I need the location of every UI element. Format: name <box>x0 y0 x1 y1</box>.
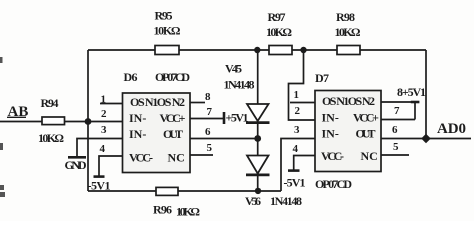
svg-text:D7: D7 <box>315 71 329 85</box>
svg-text:OUT: OUT <box>356 127 376 141</box>
svg-text:10KΩ: 10KΩ <box>335 25 361 39</box>
svg-text:AB: AB <box>8 104 29 120</box>
svg-text:5: 5 <box>207 142 213 154</box>
svg-text:IN-: IN- <box>322 127 339 141</box>
svg-text:-5V1: -5V1 <box>284 176 306 190</box>
svg-text:IN-: IN- <box>129 127 146 141</box>
svg-text:NC: NC <box>168 151 185 165</box>
svg-text:10KΩ: 10KΩ <box>154 24 181 38</box>
svg-text:OS N1OS N2: OS N1OS N2 <box>322 94 375 108</box>
svg-text:OP07CD: OP07CD <box>155 70 190 84</box>
svg-text:6: 6 <box>205 126 211 138</box>
svg-text:VCC+: VCC+ <box>353 111 379 125</box>
svg-text:5: 5 <box>393 141 399 153</box>
svg-text:3: 3 <box>101 124 107 136</box>
svg-text:R97: R97 <box>268 10 286 24</box>
svg-text:2: 2 <box>101 108 107 120</box>
svg-text:10KΩ: 10KΩ <box>38 131 64 145</box>
svg-text:10KΩ: 10KΩ <box>176 205 200 219</box>
svg-text:GND: GND <box>65 158 87 172</box>
svg-text:IN-: IN- <box>322 111 339 125</box>
svg-text:7: 7 <box>394 105 400 117</box>
svg-text:OUT: OUT <box>163 127 183 141</box>
svg-text:VCC+: VCC+ <box>160 111 186 125</box>
svg-text:-5V1: -5V1 <box>88 179 111 193</box>
svg-text:2: 2 <box>295 105 301 117</box>
svg-text:R98: R98 <box>336 10 355 24</box>
svg-text:8+5V1: 8+5V1 <box>397 85 426 99</box>
svg-text:10KΩ: 10KΩ <box>266 25 292 39</box>
svg-text:VCC-: VCC- <box>129 151 153 165</box>
svg-text:VCC-: VCC- <box>321 149 344 163</box>
svg-text:NC: NC <box>361 149 378 163</box>
svg-text:OP07CD: OP07CD <box>315 177 352 191</box>
svg-text:R96: R96 <box>153 203 172 217</box>
svg-text:AD0: AD0 <box>437 121 466 137</box>
svg-text:1: 1 <box>101 94 107 106</box>
svg-text:V56: V56 <box>245 194 261 208</box>
svg-text:6: 6 <box>392 124 398 136</box>
svg-text:OS N1OS N2: OS N1OS N2 <box>130 95 185 109</box>
svg-text:1: 1 <box>294 89 300 101</box>
svg-text:+5V1: +5V1 <box>226 111 249 125</box>
svg-text:4: 4 <box>100 143 106 155</box>
svg-text:D6: D6 <box>124 70 138 84</box>
svg-text:7: 7 <box>207 106 213 118</box>
svg-text:4: 4 <box>293 143 299 155</box>
svg-text:V45: V45 <box>225 62 242 76</box>
svg-text:IN-: IN- <box>129 111 146 125</box>
svg-text:8: 8 <box>205 91 211 103</box>
svg-text:1N4148: 1N4148 <box>224 78 255 92</box>
svg-text:3: 3 <box>294 124 300 136</box>
svg-text:R94: R94 <box>41 96 59 110</box>
svg-text:1N4148: 1N4148 <box>270 194 302 208</box>
svg-text:R95: R95 <box>155 9 173 23</box>
